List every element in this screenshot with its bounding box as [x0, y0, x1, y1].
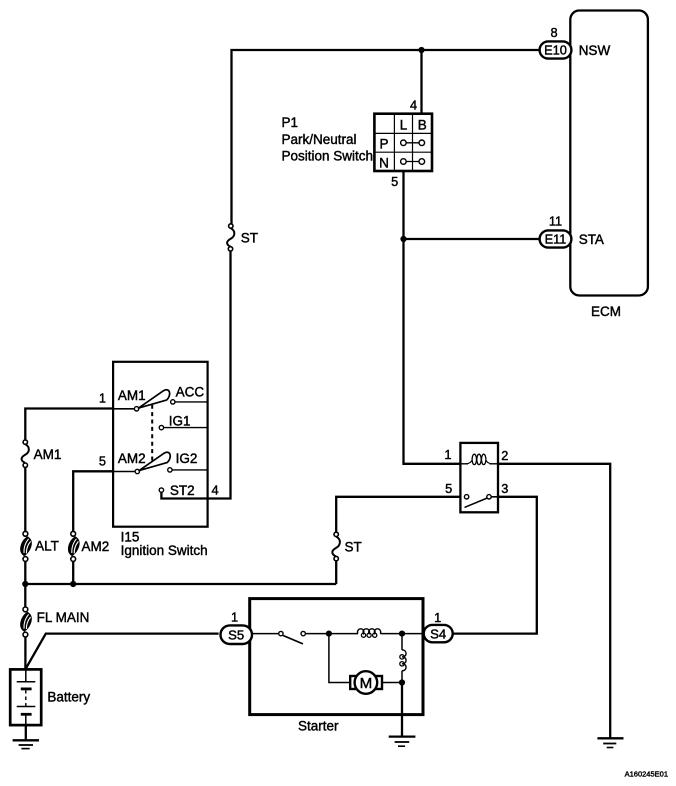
wire P1 pin5 down to relay pin1	[404, 171, 461, 464]
svg-text:Starter: Starter	[298, 719, 339, 734]
wire contact to junction	[305, 633, 358, 635]
wire junction down to starter ground	[401, 683, 403, 737]
wire STA net to E11	[404, 238, 541, 240]
svg-text:AM1: AM1	[118, 388, 146, 403]
svg-text:1: 1	[231, 609, 238, 624]
svg-text:FL MAIN: FL MAIN	[37, 610, 90, 625]
wire battery bus to lower ST fuse branch	[25, 583, 336, 585]
svg-text:E11: E11	[545, 232, 567, 247]
svg-text:Position Switch: Position Switch	[282, 149, 374, 164]
I15 AM2 contact	[135, 469, 139, 473]
I15 mechanical link dashed line	[151, 405, 153, 465]
svg-text:L: L	[400, 118, 408, 133]
switch P1 Park/Neutral Position Switch outer box	[374, 114, 432, 171]
wire AM1 feed from left column to I15 pin1	[25, 409, 113, 440]
wire relay contact to pin3 edge	[491, 496, 498, 498]
svg-text:N: N	[379, 155, 389, 170]
starter switch contact left	[279, 631, 283, 635]
connector S5	[221, 625, 253, 644]
relay ST (starter relay) box	[460, 443, 498, 512]
ground (starter)	[389, 737, 416, 747]
wire motor to junction	[382, 682, 402, 684]
fuse AM1 bottom circle	[23, 463, 27, 467]
wire AM2 link to bus junction	[72, 561, 74, 584]
fusible link FL MAIN element	[20, 612, 32, 632]
svg-text:A160245E01: A160245E01	[625, 770, 668, 779]
ECM U1 box	[570, 11, 648, 296]
P1 grid vertical line 1	[393, 114, 395, 171]
wire I15 pin5 stub to AM2 contact	[113, 471, 135, 473]
fusible link ALT bottom circle	[23, 557, 28, 562]
svg-text:P1: P1	[282, 115, 299, 130]
svg-text:1: 1	[434, 610, 441, 625]
starter switch wire from S5	[252, 633, 279, 635]
svg-text:ST: ST	[241, 231, 258, 246]
switch I15 Ignition Switch box	[113, 362, 208, 527]
wire junction to motor branch	[329, 634, 350, 683]
svg-text:NSW: NSW	[579, 43, 611, 58]
svg-text:Park/Neutral: Park/Neutral	[282, 132, 357, 147]
fuse ST (upper) top circle	[229, 224, 233, 228]
node junction at (73.2,584)	[70, 581, 76, 587]
starter motor M brushes and body	[350, 671, 382, 694]
svg-text:11: 11	[549, 214, 562, 229]
fusible link AM2 top circle	[71, 531, 76, 536]
relay coil	[460, 454, 498, 464]
I15 AM1 contact	[134, 407, 138, 411]
wire ACC to box edge	[175, 401, 208, 403]
I15 AM2-IG2 lever	[139, 452, 170, 470]
relay switch contact left	[464, 495, 468, 499]
svg-text:B: B	[418, 118, 427, 133]
I15 ST2 contact	[159, 488, 163, 492]
wire E10/NSW net: horizontal y=50 from x=231.5 to E10	[232, 50, 541, 224]
svg-text:AM2: AM2	[82, 539, 110, 554]
wire I15 pin1 stub to AM1 contact	[113, 408, 134, 410]
starter switch lever	[283, 636, 303, 644]
wire battery tap diagonal to S5 feed	[26, 634, 219, 669]
svg-text:M: M	[360, 675, 373, 692]
fuse ST (upper) element	[227, 228, 234, 247]
node junction at (403.5,239)	[400, 236, 406, 242]
label P1 Park/Neutral Position Switch	[282, 115, 374, 164]
svg-text:ST2: ST2	[170, 483, 195, 498]
svg-text:IG1: IG1	[169, 413, 191, 428]
svg-text:3: 3	[501, 481, 508, 496]
fusible link ALT top circle	[23, 531, 28, 536]
svg-text:S4: S4	[430, 627, 446, 642]
I15 AM1-ACC lever	[139, 390, 170, 408]
wire from junction down to P1 pin4	[420, 50, 422, 114]
svg-text:AM2: AM2	[118, 451, 146, 466]
starter switch contact right	[301, 631, 305, 635]
P1 grid vertical line 2	[412, 114, 414, 171]
svg-text:8: 8	[550, 25, 557, 40]
node junction at (328.9,633.6)	[326, 631, 332, 637]
svg-text:5: 5	[99, 453, 106, 468]
starter box	[250, 599, 423, 715]
svg-text:E10: E10	[544, 43, 567, 58]
relay switch lever	[465, 498, 488, 507]
connector S4	[424, 625, 453, 642]
fusible link AM2 element	[68, 536, 80, 556]
P1 contact row N	[401, 159, 425, 165]
P1 contact row P	[401, 140, 425, 146]
wire ST fuse to ST2 terminal of ignition switch	[161, 251, 230, 498]
fuse ST (lower) bottom circle	[334, 556, 338, 560]
wire battery negative to ground	[25, 725, 27, 740]
node junction at (421.5,50)	[418, 47, 424, 53]
svg-text:ECM: ECM	[591, 304, 621, 319]
I15 IG1 contact	[159, 425, 163, 429]
wire IG2 to box edge	[172, 469, 208, 471]
svg-text:2: 2	[501, 448, 508, 463]
svg-text:IG2: IG2	[176, 451, 198, 466]
wire coil to junction and S4	[380, 633, 423, 635]
fusible link ALT element	[20, 536, 32, 556]
wire ALT link down to battery bus	[24, 561, 26, 607]
svg-text:4: 4	[212, 483, 219, 498]
label I15 Ignition Switch	[121, 530, 208, 559]
node junction at (25.3,584)	[22, 581, 28, 587]
wire relay pin2 to right ground drop	[498, 464, 610, 739]
fuse AM1 element	[22, 444, 29, 463]
node junction at (402,633.6)	[399, 631, 405, 637]
wire lower ST fuse up to relay pin5	[336, 497, 460, 532]
node junction at (402,682.5)	[399, 679, 405, 685]
fusible link AM2 bottom circle	[71, 557, 76, 562]
wire AM1 fuse to ALT link	[24, 467, 26, 531]
svg-text:1: 1	[99, 390, 106, 405]
starter pull-in coil (vertical)	[400, 634, 406, 683]
wire relay pin3 down to S4	[453, 497, 537, 634]
svg-text:1: 1	[444, 447, 451, 462]
starter hold-in coil (horizontal)	[358, 629, 381, 634]
wire AM2 feed from left column to I15 pin5	[73, 471, 113, 531]
P1 grid horizontal line 1	[374, 132, 432, 134]
relay switch contact right	[487, 495, 491, 499]
wire lower ST fuse to bus	[335, 561, 337, 584]
svg-text:ACC: ACC	[176, 385, 205, 400]
battery internal symbol	[17, 669, 36, 725]
svg-text:ALT: ALT	[35, 539, 59, 554]
svg-text:Battery: Battery	[47, 690, 90, 705]
ground (right, ECM side)	[597, 738, 623, 747]
svg-text:S5: S5	[228, 628, 244, 643]
I15 IG2 contact	[168, 468, 172, 472]
connector E10	[540, 41, 572, 58]
svg-text:AM1: AM1	[34, 447, 62, 462]
ground (battery)	[13, 740, 39, 748]
connector E11	[540, 230, 572, 247]
svg-text:Ignition Switch: Ignition Switch	[121, 543, 208, 558]
fusible link FL MAIN top circle	[23, 607, 28, 612]
fuse ST (upper) bottom circle	[228, 247, 232, 251]
svg-text:STA: STA	[579, 232, 604, 247]
battery B1 box	[10, 669, 41, 725]
fuse ST (lower) element	[332, 537, 340, 557]
svg-text:ST: ST	[345, 540, 362, 555]
I15 ACC contact	[171, 400, 175, 404]
wire FL MAIN to battery positive	[24, 637, 26, 669]
svg-text:5: 5	[445, 481, 452, 496]
wire IG1 to box edge	[164, 427, 208, 429]
P1 grid horizontal line 2	[374, 151, 432, 153]
fuse AM1 top circle	[23, 440, 27, 444]
fuse ST (lower) top circle	[334, 532, 338, 536]
fusible link FL MAIN bottom circle	[23, 632, 28, 637]
svg-text:P: P	[379, 137, 388, 152]
svg-text:5: 5	[391, 174, 398, 189]
svg-text:4: 4	[410, 98, 417, 113]
